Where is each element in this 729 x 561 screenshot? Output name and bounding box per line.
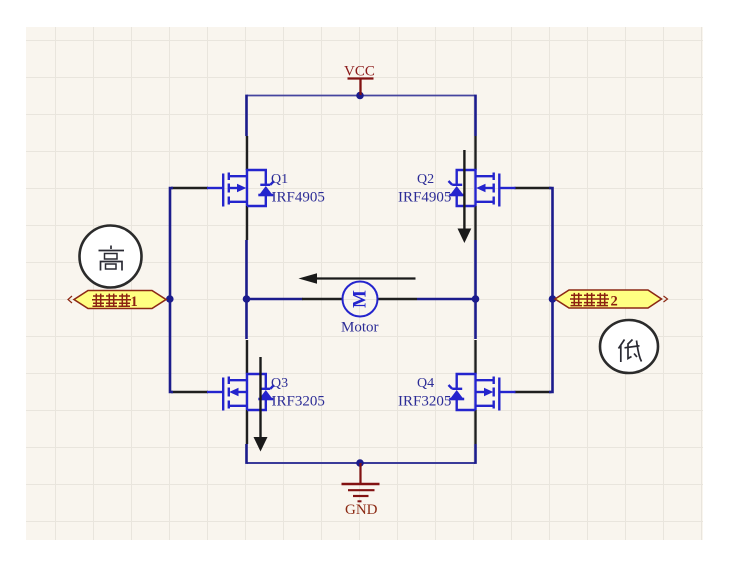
power VCC: [348, 79, 374, 96]
ground GND: [342, 463, 380, 501]
wire: Q1 drain drop: [245, 95, 248, 136]
transistor Q4 (IRF3205 N-ch, mirrored): [449, 340, 552, 444]
wire: bottom rail: [247, 462, 475, 464]
junction: VCC node: [356, 92, 364, 100]
svg-text:GND: GND: [345, 502, 378, 518]
annotation: arrow through Q3: [254, 357, 268, 452]
svg-text:2: 2: [611, 293, 618, 309]
svg-text:Q4: Q4: [417, 376, 434, 391]
annotation: circle 高 (high): [80, 226, 142, 288]
wire: Q4 source drop: [474, 444, 477, 464]
svg-text:Q3: Q3: [271, 376, 288, 391]
wire: VCC top rail: [247, 95, 475, 97]
annotation: current arrow (left, above motor): [299, 273, 416, 284]
wire: left leg Q1 source to Q3 drain: [245, 240, 248, 339]
transistor Q2 (IRF4905 P-ch, mirrored): [449, 136, 552, 240]
svg-text:VCC: VCC: [344, 64, 375, 80]
wire: motor right: [417, 298, 476, 301]
junction: port1 node: [166, 295, 174, 303]
wire: right leg Q2 source to Q4 drain: [474, 240, 477, 339]
svg-text:IRF4905: IRF4905: [398, 190, 451, 206]
svg-text:IRF3205: IRF3205: [398, 394, 451, 410]
motor M1: [302, 282, 417, 317]
port 控制臂1: [68, 291, 166, 311]
junction: port2 node: [549, 295, 557, 303]
transistor Q3 (IRF3205 N-ch): [171, 340, 274, 444]
wire: Q2 drain drop: [474, 95, 477, 136]
wire: motor left: [247, 298, 303, 301]
annotation: arrow through Q2: [458, 150, 472, 243]
wire: Q3 source drop: [245, 444, 248, 464]
annotation: circle 低 (low): [600, 320, 658, 373]
junction: motor left node: [243, 295, 251, 303]
port 控制臂2: [555, 290, 668, 309]
svg-text:1: 1: [131, 294, 138, 310]
svg-text:Q2: Q2: [417, 172, 434, 187]
svg-text:IRF4905: IRF4905: [272, 190, 325, 206]
junction: GND node: [356, 459, 364, 467]
wire: left gate line: [170, 188, 173, 392]
svg-text:Motor: Motor: [341, 320, 379, 336]
svg-text:Q1: Q1: [271, 172, 288, 187]
transistor Q1 (IRF4905 P-ch): [171, 136, 274, 240]
wire: right gate line: [549, 188, 553, 392]
junction: motor right node: [472, 295, 480, 303]
svg-text:M: M: [350, 290, 371, 308]
svg-text:IRF3205: IRF3205: [272, 394, 325, 410]
